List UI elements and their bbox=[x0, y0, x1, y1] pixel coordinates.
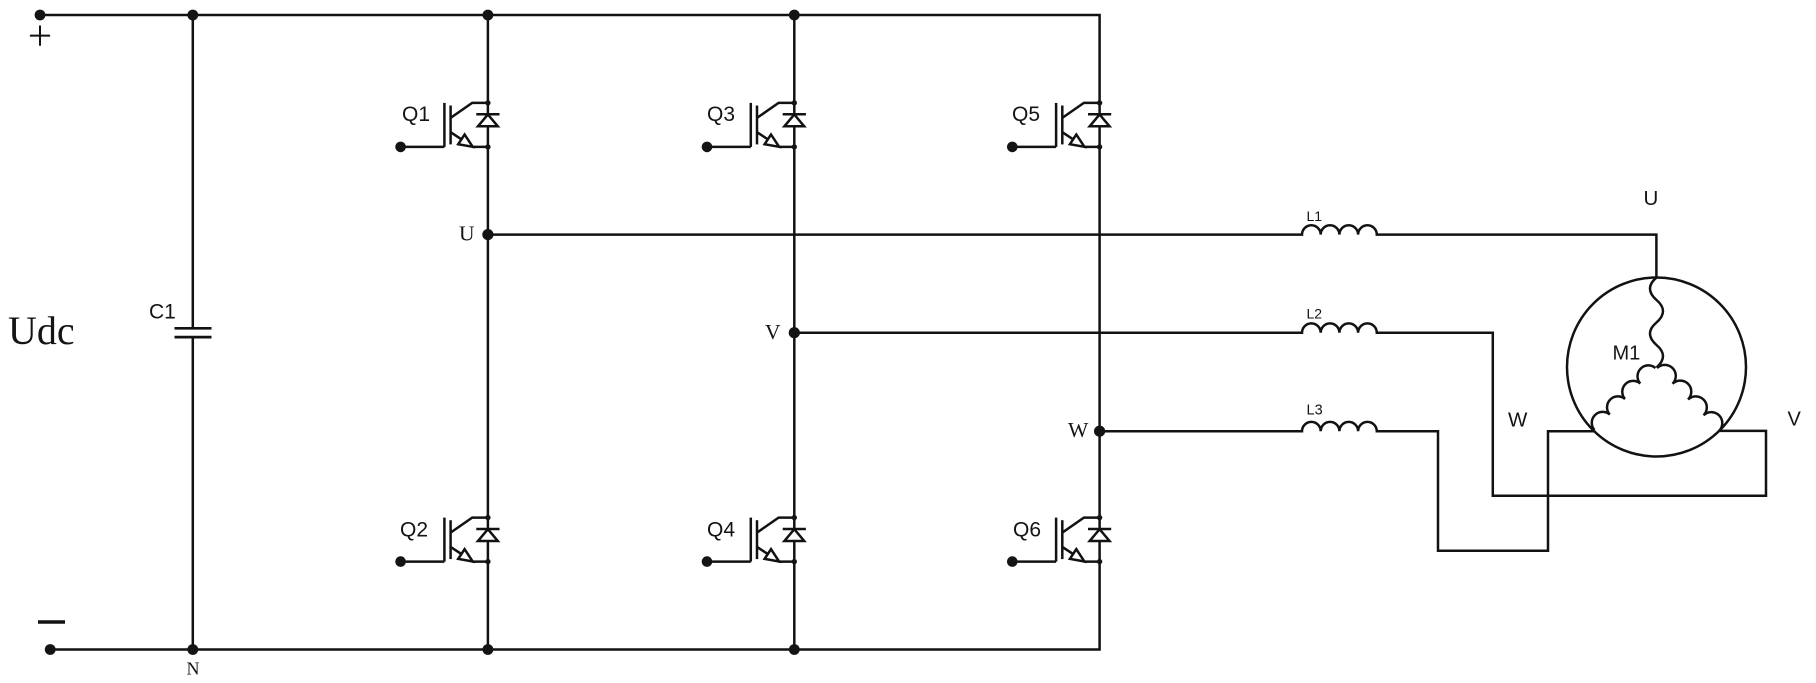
svg-text:L3: L3 bbox=[1307, 403, 1323, 419]
svg-text:L1: L1 bbox=[1307, 208, 1323, 224]
svg-text:Q1: Q1 bbox=[402, 103, 430, 126]
svg-text:U: U bbox=[1644, 187, 1659, 210]
svg-text:Q4: Q4 bbox=[707, 519, 735, 542]
svg-text:C1: C1 bbox=[149, 301, 176, 324]
svg-text:Q3: Q3 bbox=[707, 103, 735, 126]
svg-text:N: N bbox=[187, 659, 200, 679]
svg-text:Udc: Udc bbox=[8, 308, 75, 353]
svg-text:U: U bbox=[459, 222, 475, 246]
svg-text:Q5: Q5 bbox=[1012, 103, 1040, 126]
svg-text:M1: M1 bbox=[1613, 343, 1641, 365]
svg-text:W: W bbox=[1508, 409, 1528, 432]
svg-text:Q2: Q2 bbox=[400, 519, 428, 542]
svg-text:L2: L2 bbox=[1307, 306, 1323, 322]
svg-text:V: V bbox=[1788, 409, 1802, 431]
svg-text:Q6: Q6 bbox=[1013, 519, 1041, 542]
svg-text:W: W bbox=[1068, 418, 1089, 442]
svg-text:V: V bbox=[765, 320, 781, 344]
